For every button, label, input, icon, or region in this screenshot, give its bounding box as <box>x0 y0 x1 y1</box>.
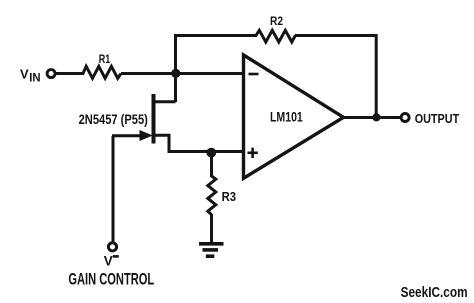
wire gate down to V- terminal <box>112 136 115 242</box>
svg-text:2N5457 (P55): 2N5457 (P55) <box>79 111 148 127</box>
wire R3 to ground <box>210 214 213 244</box>
resistor R2 <box>256 30 295 42</box>
svg-text:V: V <box>104 253 113 268</box>
svg-text:R1: R1 <box>99 52 111 66</box>
svg-text:R3: R3 <box>222 189 236 204</box>
resistor R3 <box>208 176 216 215</box>
svg-text:LM101: LM101 <box>270 110 303 125</box>
resistor R1 <box>83 66 121 78</box>
node B junction dot (non-inverting node) <box>206 148 216 158</box>
wire vertical node A up to R2 line and down to JFET drain <box>174 34 177 102</box>
wire top line to R2 <box>174 34 257 37</box>
op-amp U1 LM101 <box>244 55 344 178</box>
svg-text:IN: IN <box>29 73 40 85</box>
transistor Q1 source lead <box>154 135 172 151</box>
svg-text:OUTPUT: OUTPUT <box>415 111 460 126</box>
svg-text:GAIN CONTROL: GAIN CONTROL <box>68 271 154 289</box>
wire node B down to R3 <box>210 152 213 178</box>
wire vertical down to output line <box>375 34 378 119</box>
ground <box>199 244 224 256</box>
node V- terminal <box>108 243 116 251</box>
node A junction dot (inverting node) <box>171 69 180 78</box>
node OUTPUT terminal <box>401 114 409 122</box>
wire source to non-inverting input <box>168 150 244 153</box>
transistor Q1 2N5457 JFET channel bar <box>152 94 156 144</box>
node output junction dot <box>372 113 380 121</box>
transistor Q1 drain lead <box>154 100 176 103</box>
svg-text:SeekIC.com: SeekIC.com <box>401 284 468 301</box>
svg-text:R2: R2 <box>270 14 283 28</box>
transistor Q1 gate arrowhead <box>140 130 153 141</box>
transistor Q1 gate lead <box>112 134 141 137</box>
wire output <box>343 116 401 119</box>
op-amp minus sign <box>249 73 259 76</box>
wire VIN to R1 <box>55 72 84 75</box>
op-amp plus sign <box>248 152 258 155</box>
wire R1 to inverting input <box>121 72 243 75</box>
svg-text:V: V <box>20 67 29 82</box>
wire R2 to output node <box>295 34 378 37</box>
node VIN terminal <box>47 70 55 78</box>
